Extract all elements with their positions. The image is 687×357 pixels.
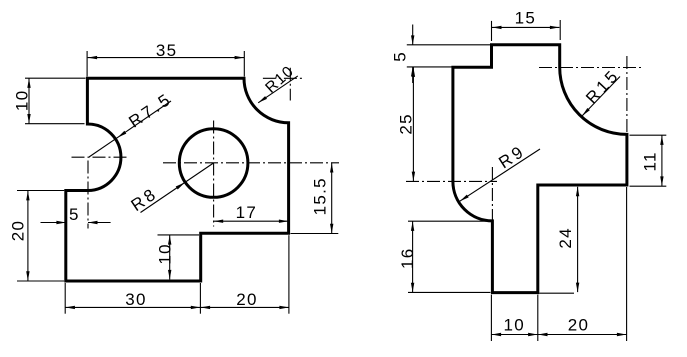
dim 10 line	[28, 78, 30, 123]
dim 35 extension lines	[86, 51, 88, 77]
dim 20 line	[27, 191, 29, 281]
svg-text:15: 15	[515, 8, 537, 27]
dim 20 bottom arrows	[538, 333, 548, 336]
dim 30 line	[65, 306, 289, 308]
dim 25 arrows	[412, 67, 415, 77]
R7.5 arrow	[118, 131, 127, 138]
R15 horizontal centerline	[539, 67, 641, 69]
R8 leader	[141, 163, 214, 213]
dim 16 extension lines	[408, 220, 491, 222]
dim 10 middle extension line	[158, 234, 200, 236]
dim 30 arrows	[65, 306, 75, 309]
R7.5 horizontal centerline	[72, 156, 129, 158]
R15 leader	[582, 77, 620, 117]
left part outline	[66, 78, 289, 281]
dim 15.5 arrows	[330, 163, 333, 173]
svg-text:30: 30	[125, 290, 147, 309]
dim 35 line	[88, 57, 245, 59]
dim 5 right tails	[412, 25, 414, 45]
dim 15 right extension lines	[491, 21, 493, 41]
svg-text:25: 25	[397, 113, 416, 135]
dim 17 line	[214, 220, 289, 222]
dim 24 line	[577, 187, 579, 292]
dim 24 arrows	[576, 187, 579, 197]
dim 10 bottom extension lines	[490, 295, 492, 341]
svg-text:10: 10	[13, 90, 32, 112]
dim 35 arrows	[88, 56, 98, 59]
svg-text:15.5: 15.5	[310, 177, 329, 215]
R10 horizontal centerline	[263, 77, 303, 79]
svg-text:20: 20	[8, 220, 27, 242]
svg-text:11: 11	[641, 151, 660, 171]
dim 5 tails	[41, 222, 66, 224]
svg-text:10: 10	[503, 315, 525, 334]
dim 15 right arrows	[492, 26, 502, 29]
dim 5 right arrows	[411, 35, 414, 45]
dim 16 line	[412, 221, 414, 292]
R9 horizontal centerline	[406, 180, 497, 182]
dim 10 middle arrows	[168, 235, 171, 245]
svg-text:5: 5	[391, 51, 410, 62]
R10 vertical centerline	[289, 68, 291, 101]
dim 11 line	[661, 135, 663, 186]
dim 20 bottom arrows	[201, 306, 211, 309]
dim 10 middle line	[169, 235, 171, 279]
dim 15.5 extension line	[291, 233, 339, 235]
R15 arrow	[582, 108, 590, 116]
dim 10-20 bottom line	[492, 334, 627, 336]
dim 17 arrows	[214, 220, 224, 223]
dim 20 bottom right extension line	[626, 187, 628, 341]
R9 vertical centerline	[491, 167, 493, 220]
svg-text:24: 24	[556, 227, 575, 249]
R7.5 leader	[89, 101, 171, 157]
dim 10 arrows	[27, 78, 30, 88]
svg-text:17: 17	[236, 203, 258, 222]
dim 11 extension lines	[630, 134, 667, 136]
R9 leader	[460, 149, 540, 201]
R8 arrow	[176, 182, 185, 189]
dim 10 extension lines	[25, 77, 86, 79]
R9 arrow	[460, 195, 469, 202]
dim 20 extension lines	[17, 190, 64, 192]
circle vertical centerline	[213, 121, 215, 227]
svg-text:16: 16	[398, 247, 417, 269]
dim 20 arrows	[26, 191, 29, 201]
dim 15.5 line	[331, 163, 333, 233]
dim 25 line	[412, 67, 414, 181]
dim 5 arrows	[56, 221, 66, 224]
dim 10 bottom arrows	[492, 333, 502, 336]
svg-text:20: 20	[236, 290, 258, 309]
R7.5 vertical centerline	[87, 161, 89, 229]
svg-text:35: 35	[156, 41, 178, 60]
dim 11 arrows	[660, 135, 663, 145]
dim 5 right extension lines	[407, 44, 490, 46]
svg-text:5: 5	[69, 205, 80, 224]
svg-text:10: 10	[156, 243, 175, 265]
dim 24 extension line	[539, 292, 574, 294]
dim 15 right line	[492, 26, 559, 28]
right part outline	[453, 45, 627, 293]
dim 30 extension lines	[64, 283, 66, 314]
hole circle R8	[179, 129, 248, 198]
svg-text:20: 20	[568, 315, 590, 334]
R10 leader	[258, 76, 298, 103]
R10 arrow	[258, 96, 267, 103]
circle horizontal centerline	[163, 162, 339, 164]
R15 vertical centerline	[626, 56, 628, 132]
dim 20 bottom right extension line	[288, 235, 290, 314]
dim 16 arrows	[411, 221, 414, 231]
